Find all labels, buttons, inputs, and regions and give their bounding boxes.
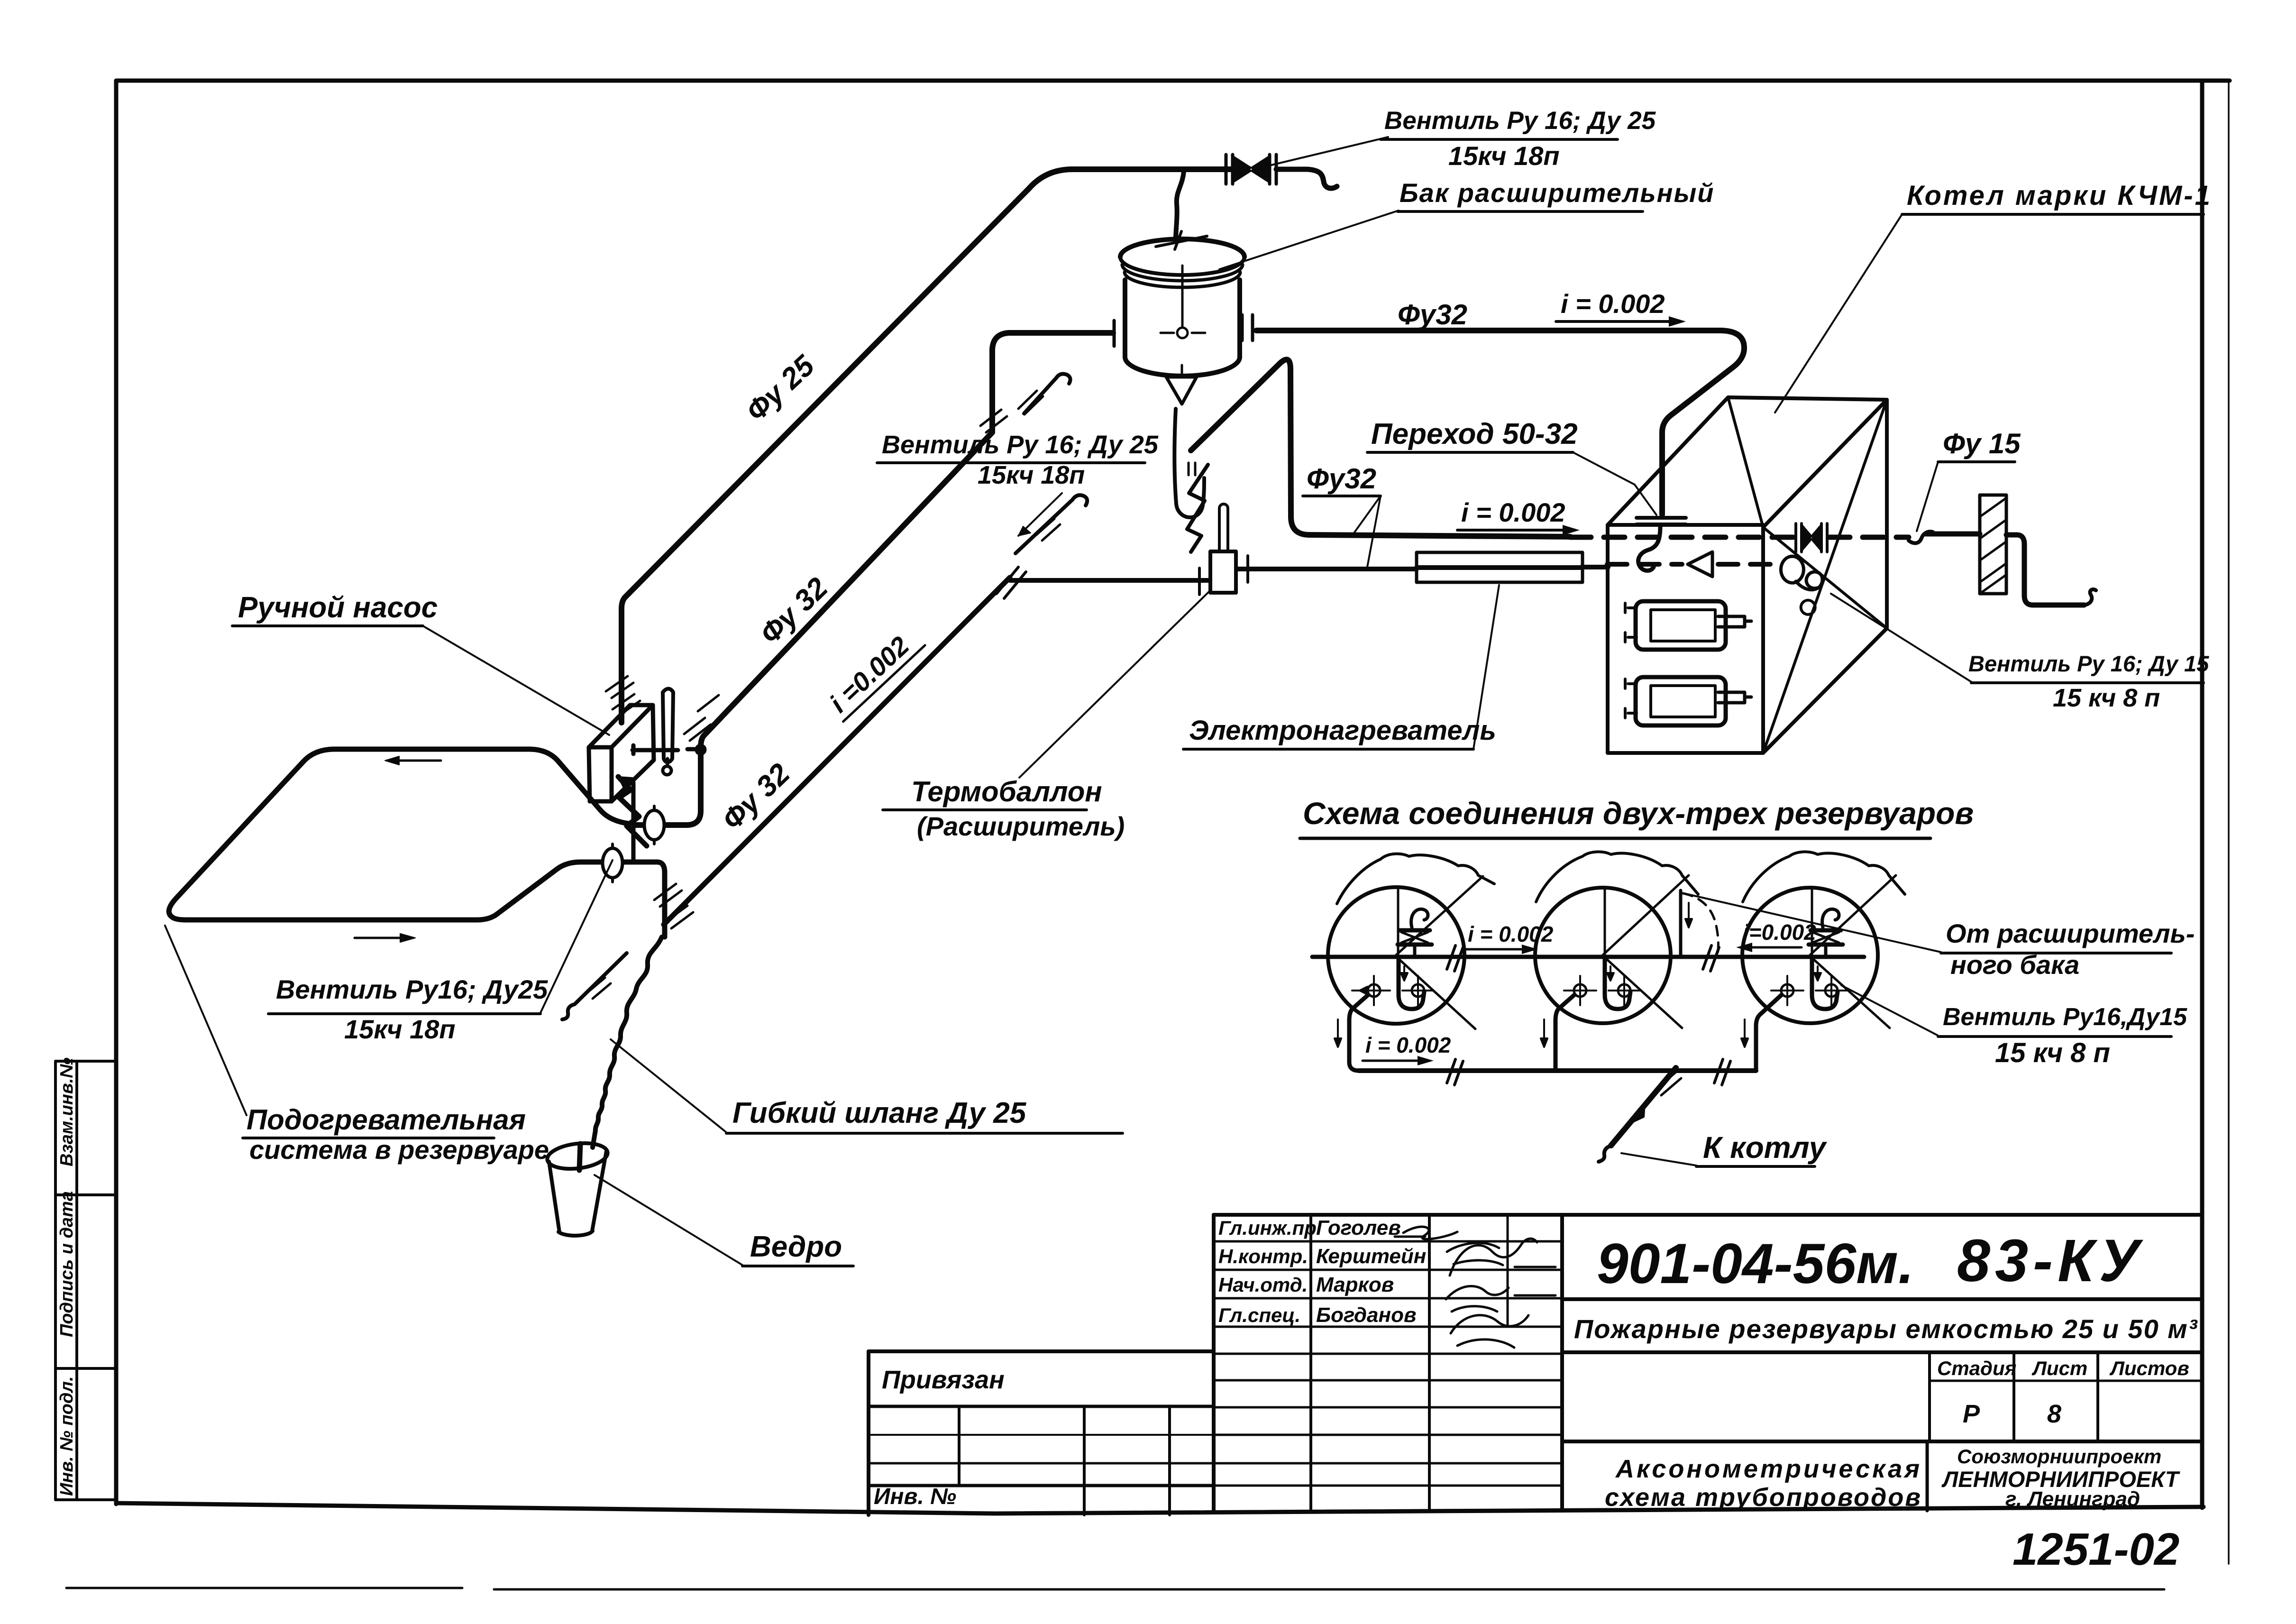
titleblock texts	[1218, 1216, 1426, 1327]
hash on vertical	[980, 410, 1007, 432]
border right thin outer	[2228, 81, 2230, 1564]
svg-text:Электронагреватель: Электронагреватель	[1189, 715, 1496, 746]
svg-text:Котел марки КЧМ-1: Котел марки КЧМ-1	[1907, 180, 2212, 211]
svg-text:Бак расширительный: Бак расширительный	[1400, 178, 1714, 208]
wire: reservoir coil parallelogram	[169, 749, 682, 942]
wire: pump outlet and junction	[618, 777, 664, 862]
label: Переход 50-32	[1367, 418, 1656, 515]
wire: К котлу branch arrow	[1599, 1068, 1681, 1162]
LEFT STAMP BOXES	[55, 1061, 116, 1500]
svg-text:Привязан: Привязан	[882, 1366, 1005, 1394]
svg-text:Гл.инж.пр: Гл.инж.пр	[1218, 1217, 1317, 1239]
valve circle on D2 horizontal	[653, 806, 656, 844]
svg-text:Союзморниипроект: Союзморниипроект	[1957, 1445, 2161, 1468]
spring relief symbol circle1	[1398, 909, 1432, 956]
label: Котел марки КЧМ-1	[1775, 180, 2212, 413]
tank right flange	[1242, 315, 1253, 340]
wire: Y-pipe from tank drain up over apex down to boiler feed line	[1191, 359, 2096, 605]
svg-text:Вентиль Ру16; Ду25: Вентиль Ру16; Ду25	[276, 974, 548, 1004]
bottom scan line	[66, 1588, 2164, 1589]
label: К котлу	[1621, 1130, 1828, 1166]
right face X	[1763, 400, 1887, 753]
svg-text:Гл.спец.: Гл.спец.	[1218, 1304, 1300, 1326]
label: i=0.002 (b) at c3 with left arrow	[1736, 920, 1816, 952]
fitting curl below valve V2	[1781, 556, 1822, 615]
privyazan block	[867, 1351, 870, 1515]
tank float gauge	[1181, 266, 1184, 326]
svg-text:схема трубопроводов: схема трубопроводов	[1605, 1483, 1922, 1512]
svg-text:Переход 50-32: Переход 50-32	[1371, 418, 1578, 450]
wire: lower manifold	[1359, 1068, 1756, 1073]
pump handle blade	[663, 689, 673, 762]
flange ticks at thermo pocket	[1199, 556, 1248, 595]
svg-text:15кч 18п: 15кч 18п	[978, 461, 1085, 489]
boiler KChM-1 box	[1608, 397, 1887, 753]
label: Ручной насос	[232, 591, 609, 735]
names table grid	[1212, 1215, 1216, 1511]
thermo pocket box	[1210, 551, 1236, 593]
svg-text:15 кч 8 п: 15 кч 8 п	[1995, 1037, 2110, 1068]
label: Бак расширительный	[1219, 178, 1714, 269]
J-tube + valves circle3	[1741, 958, 1847, 1070]
wire: riser from top pipe to tank lid	[1176, 172, 1184, 237]
svg-text:901-04-56м.: 901-04-56м.	[1597, 1232, 1914, 1295]
svg-text:Фу 15: Фу 15	[1943, 428, 2021, 459]
svg-text:1251-02: 1251-02	[2012, 1524, 2179, 1575]
TITLE BLOCK	[869, 1215, 2202, 1515]
svg-text:Фу32: Фу32	[1398, 299, 1467, 330]
border right thick	[2200, 81, 2205, 1508]
svg-text:Вентиль Ру 16; Ду 25: Вентиль Ру 16; Ду 25	[882, 431, 1159, 459]
valve V1 bowtie	[1234, 156, 1269, 182]
bucket	[546, 1140, 609, 1236]
stub: broken pipe near hose with S-hook	[562, 953, 627, 1019]
svg-text:Керштейн: Керштейн	[1316, 1245, 1426, 1268]
valve circle on lower pipe	[611, 844, 614, 882]
syphon hook into boiler	[1638, 526, 1660, 571]
hand pump 3D body	[589, 689, 704, 802]
jog and solid to wall	[1909, 532, 1933, 543]
valve V2 on boiler line (dashed zone) flanges	[1796, 523, 1827, 552]
svg-text:Гоголев: Гоголев	[1316, 1216, 1401, 1239]
border top	[116, 79, 2230, 83]
dashed continuation through boiler	[1570, 535, 1794, 540]
tank: expansion tank	[1114, 231, 1253, 552]
J-tube + valves circle1	[1335, 958, 1434, 1071]
thin flow arrow	[1018, 493, 1062, 536]
top face diagonal	[1728, 397, 1763, 527]
boiler door 1	[1636, 601, 1726, 650]
tank left flange	[1114, 321, 1125, 346]
svg-text:От расширитель-: От расширитель-	[1946, 918, 2195, 948]
label: i=0.002 (c) below c1	[1363, 1033, 1451, 1065]
wire: flexible hose wavy	[579, 937, 662, 1170]
svg-text:i = 0.002: i = 0.002	[1365, 1033, 1451, 1057]
arrow under top edge (left)	[390, 760, 441, 762]
cloud 2	[1536, 852, 1698, 902]
label: Фу15	[1917, 428, 2021, 531]
label: Подогревательная система в резервуаре	[165, 926, 549, 1165]
svg-text:Гибкий шланг Ду 25: Гибкий шланг Ду 25	[732, 1097, 1027, 1129]
label: Вентиль Ру16 Ду25 (top)	[1381, 107, 1656, 171]
border bottom	[116, 1503, 2204, 1514]
wire: D3 long diagonal i=0.002	[664, 578, 1010, 928]
signature scribbles	[1395, 1227, 1555, 1348]
wire: pipe right of valve with break hook	[1276, 169, 1337, 188]
svg-text:i=0.002: i=0.002	[1743, 920, 1816, 945]
valve V2 bowtie	[1802, 525, 1820, 550]
svg-text:Богданов: Богданов	[1316, 1303, 1417, 1327]
reservoir circle 2	[1535, 852, 1698, 1028]
svg-text:Взам.инв.№: Взам.инв.№	[57, 1057, 77, 1166]
reservoir circle 3	[1742, 852, 1905, 1028]
svg-text:Вентиль Ру 16; Ду 15: Вентиль Ру 16; Ду 15	[1968, 651, 2209, 676]
svg-text:Инв. №: Инв. №	[874, 1484, 956, 1509]
label: i=0.002 (tank right pipe) with arrow	[1556, 289, 1686, 327]
svg-text:83-КУ: 83-КУ	[1957, 1227, 2144, 1294]
svg-text:Пожарные резервуары емкостью 2: Пожарные резервуары емкостью 25 и 50 м³	[1574, 1314, 2198, 1344]
label: От расширительного бака	[1688, 894, 2195, 980]
zigzag arrow at pump bottom	[618, 777, 647, 846]
tank lid tick	[1156, 231, 1207, 249]
valve V1 top (Вентиль Ру16 Ду25) flanges	[1226, 155, 1276, 184]
svg-text:Аксонометрическая: Аксонометрическая	[1615, 1455, 1922, 1483]
svg-text:г. Ленинград: г. Ленинград	[2005, 1487, 2140, 1511]
svg-text:i = 0.002: i = 0.002	[1468, 922, 1554, 946]
wire: top horizontal pipe to valve	[622, 169, 1231, 723]
heater element rectangle	[1417, 552, 1583, 582]
cloud 1	[1337, 854, 1494, 904]
label: scheme title	[1300, 796, 1974, 838]
label: Фу32 (Y-pipe) with fork leader	[1303, 463, 1381, 567]
junction hash at heater line left end	[997, 567, 1026, 598]
hash marks on main pipe	[1447, 945, 1719, 971]
reservoir circle 1	[1328, 854, 1494, 1029]
svg-text:Вентиль Ру16,Ду15: Вентиль Ру16,Ду15	[1943, 1003, 2187, 1031]
leader to tank	[1219, 211, 1399, 269]
wall with hatching	[1980, 495, 2006, 594]
svg-text:(Расширитель): (Расширитель)	[917, 811, 1125, 841]
svg-text:15кч 18п: 15кч 18п	[344, 1014, 456, 1044]
stub: broken continuation of vent pipe above middle label	[1018, 374, 1070, 414]
label: i=0.002 rotated on D3	[822, 622, 925, 722]
svg-text:15кч 18п: 15кч 18п	[1448, 141, 1560, 171]
svg-text:Термобаллон: Термобаллон	[911, 776, 1102, 807]
label: Вентиль Ру16, Ду15 (scheme)	[1841, 985, 2187, 1068]
flow arrow beside	[1335, 1019, 1341, 1047]
tank funnel	[1166, 377, 1197, 404]
svg-text:Схема соединения двух-трех рез: Схема соединения двух-трех резервуаров	[1303, 796, 1974, 831]
svg-text:15 кч 8 п: 15 кч 8 п	[2053, 684, 2160, 712]
big cells	[1562, 1297, 2202, 1301]
stub: broken pipe with hook (above middle label)	[1015, 493, 1087, 553]
label: Вентиль Ру16 Ду25 (left)	[268, 860, 613, 1044]
cloud 3	[1743, 852, 1905, 902]
hash marks on manifold	[1447, 1059, 1730, 1085]
wire: tank right pipe to boiler with elbow down and syphon	[1256, 330, 1744, 571]
label: Ведро	[595, 1175, 853, 1266]
wire: main pipe through reservoirs	[1312, 955, 1864, 959]
label: Электронагреватель	[1183, 585, 1499, 749]
svg-text:Листов: Листов	[2109, 1357, 2189, 1379]
J-tube + valves circle2	[1541, 958, 1640, 1071]
svg-text:Лист: Лист	[2031, 1357, 2087, 1379]
hash on drop vertical	[654, 884, 682, 907]
wire: heater line lower dashed inside boiler with arrowhead	[1607, 552, 1781, 577]
svg-text:Подогревательная: Подогревательная	[247, 1104, 526, 1136]
label: i=0.002 (a) between c1 c2	[1465, 922, 1554, 954]
svg-text:8: 8	[2047, 1400, 2061, 1428]
svg-text:ного бака: ного бака	[1950, 950, 2079, 980]
svg-text:Вентиль Ру 16; Ду 25: Вентиль Ру 16; Ду 25	[1384, 107, 1656, 135]
radius lines	[1396, 876, 1483, 1029]
svg-text:Фу32: Фу32	[1307, 463, 1376, 495]
wire: heater pipe from junction to heater and boiler	[997, 504, 1608, 598]
label: Вентиль Ру16 Ду25 (middle)	[877, 431, 1159, 489]
wire: tank left stub + elbow + D2 diagonal to pump	[635, 333, 1113, 825]
arrow under bottom edge (right)	[355, 937, 409, 939]
svg-text:Марков: Марков	[1316, 1273, 1394, 1296]
supply drop circle1	[1349, 995, 1368, 1071]
nozzle flange	[1637, 518, 1686, 524]
svg-text:i = 0.002: i = 0.002	[1461, 497, 1565, 527]
feed pipe circle2 (from expansion tank)	[1681, 890, 1718, 955]
boiler door 2	[1636, 677, 1726, 725]
svg-text:i = 0.002: i = 0.002	[1561, 289, 1665, 319]
svg-text:Стадия: Стадия	[1937, 1357, 2016, 1379]
svg-text:Ведро: Ведро	[750, 1230, 842, 1263]
svg-text:система в резервуаре: система в резервуаре	[249, 1135, 549, 1165]
thermo zigzag in U-tube	[1187, 465, 1208, 552]
label: Гибкий шланг Ду25	[611, 1039, 1123, 1133]
svg-text:Подпись и дата: Подпись и дата	[57, 1191, 77, 1337]
squiggle pipe end	[2084, 589, 2096, 605]
label: Термобаллон (Расширитель)	[883, 591, 1210, 841]
svg-text:К котлу: К котлу	[1703, 1130, 1828, 1165]
border left	[114, 81, 119, 1504]
spring relief symbol circle3	[1809, 909, 1843, 956]
hash on D2 at bend	[684, 718, 711, 741]
svg-text:Ручной насос: Ручной насос	[238, 591, 438, 624]
svg-text:Нач.отд.: Нач.отд.	[1218, 1274, 1308, 1296]
hash on D1 drop above pump	[606, 676, 640, 716]
tank U-tube	[1174, 409, 1204, 517]
svg-text:Н.контр.: Н.контр.	[1218, 1245, 1308, 1267]
thermo pocket rod	[1219, 504, 1228, 551]
label: i=0.002 (Y-pipe)	[1457, 497, 1580, 535]
hose end into bucket	[579, 1144, 580, 1170]
label: Вентиль Ру16 Ду15 (right)	[1831, 594, 2209, 712]
leader to valve label	[1271, 137, 1388, 165]
svg-text:Инв. № подл.: Инв. № подл.	[57, 1376, 77, 1496]
svg-text:Р: Р	[1963, 1400, 1980, 1428]
